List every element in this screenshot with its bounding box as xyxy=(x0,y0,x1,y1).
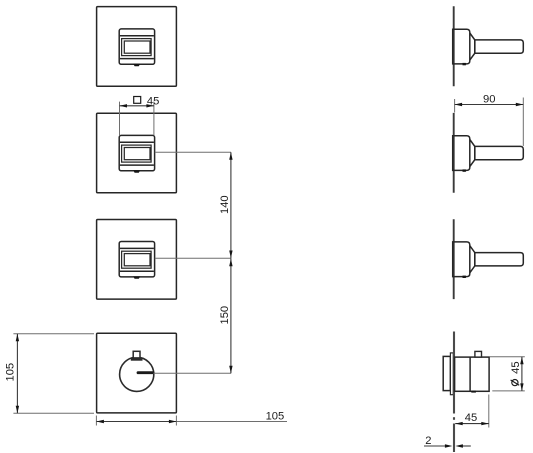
plate P1 (front view, top square escutcheon) xyxy=(97,7,177,87)
side view SV4: centerline xyxy=(453,332,455,453)
dimension D7: dim line xyxy=(521,357,523,391)
side view SV1: handle base block xyxy=(453,29,470,64)
svg-text:90: 90 xyxy=(483,93,495,105)
notch at bottom of H2 xyxy=(133,170,140,172)
side view SV4: nub on top xyxy=(475,351,482,357)
dimension D8: dim line xyxy=(455,423,489,425)
side view SV4: bottom notch xyxy=(471,391,476,393)
dimension D1: square symbol xyxy=(134,97,141,104)
dimension D7 dia45: extension lines xyxy=(490,356,525,358)
svg-text:45: 45 xyxy=(465,412,477,424)
side view SV2: lever xyxy=(475,146,524,159)
dimension D1 square-45: extension lines xyxy=(119,102,121,136)
dimension D4: dim line xyxy=(16,334,18,413)
dimension D7: diameter symbol xyxy=(512,380,518,386)
svg-text:2: 2 xyxy=(425,435,431,447)
dimension D9 2: leader and arrows xyxy=(424,445,448,447)
svg-text:105: 105 xyxy=(5,363,17,382)
side view SV3: bottom notch xyxy=(463,276,466,278)
side view SV1: cone transition xyxy=(470,33,475,60)
side view SV3: handle base block xyxy=(453,242,470,277)
dimension D6: arrows xyxy=(455,103,463,106)
dimension D5 105 bottom: extension lines xyxy=(95,416,97,426)
handle H3 (square lever knob front view) xyxy=(119,242,154,279)
knob K1 (round thermostat knob front view) xyxy=(120,351,154,391)
leader from handle H2 xyxy=(155,151,231,153)
dimension D1: dim line xyxy=(120,105,154,107)
dimension D4 105 left: extension lines xyxy=(13,333,94,335)
svg-text:105: 105 xyxy=(266,411,285,423)
side view SV4: knob body xyxy=(455,357,490,391)
handle H1 (square lever knob front view) xyxy=(119,29,154,66)
side view SV2: cone transition xyxy=(470,140,475,167)
dimension D6: dim line xyxy=(455,104,524,106)
notch at bottom of H1 xyxy=(133,64,140,66)
side view SV2: bottom notch xyxy=(463,169,466,171)
side view SV4: body divider line xyxy=(469,357,471,391)
dimension D5: dim line with leader xyxy=(96,421,176,423)
dimension D3 150: dim line xyxy=(230,258,232,373)
side view SV4: rough-in block behind wall xyxy=(443,356,450,390)
svg-text:140: 140 xyxy=(219,195,231,214)
dimension D5: arrows xyxy=(96,420,104,423)
notch at bottom of H3 xyxy=(133,276,140,278)
dimension D8 45 bottom: extension line xyxy=(488,395,490,428)
plate P4 (front view, bottom square escutcheon) xyxy=(97,333,177,413)
leader from handle H3 xyxy=(155,257,231,259)
knob pointer bar xyxy=(138,371,153,374)
side view SV3: cone transition xyxy=(470,246,475,273)
svg-text:150: 150 xyxy=(219,306,231,325)
side view SV4: flange plate xyxy=(450,353,453,395)
side view SV3: wall plate line xyxy=(453,219,455,299)
side view SV1: lever xyxy=(475,40,524,53)
svg-text:45: 45 xyxy=(510,361,522,373)
side view SV2: wall plate line xyxy=(453,113,455,193)
side view SV3: lever xyxy=(475,253,524,266)
dimension D1: arrows xyxy=(120,104,128,107)
dimension D4: arrows xyxy=(16,334,19,342)
dimension D8: arrows xyxy=(455,422,463,425)
svg-text:45: 45 xyxy=(147,95,159,107)
side view SV1: bottom notch xyxy=(463,63,466,65)
thick base bar under nub xyxy=(131,359,143,361)
side view SV2: handle base block xyxy=(453,136,470,171)
nub on top of knob xyxy=(133,351,140,358)
dimension D3: arrows xyxy=(229,259,232,267)
dimension D6 90: extension lines xyxy=(454,99,456,113)
leader from knob K1 xyxy=(153,372,231,374)
dimension D7: arrows xyxy=(520,357,523,365)
plate P3 (front view, third square escutcheon) xyxy=(97,220,177,300)
dimension D2 140: dim line xyxy=(230,152,232,258)
dimension D2: arrows xyxy=(229,152,232,160)
side view SV1: wall plate line xyxy=(453,6,455,86)
handle H2 (square lever knob front view) xyxy=(119,135,154,172)
plate P2 (front view, second square escutcheon) xyxy=(97,113,177,193)
